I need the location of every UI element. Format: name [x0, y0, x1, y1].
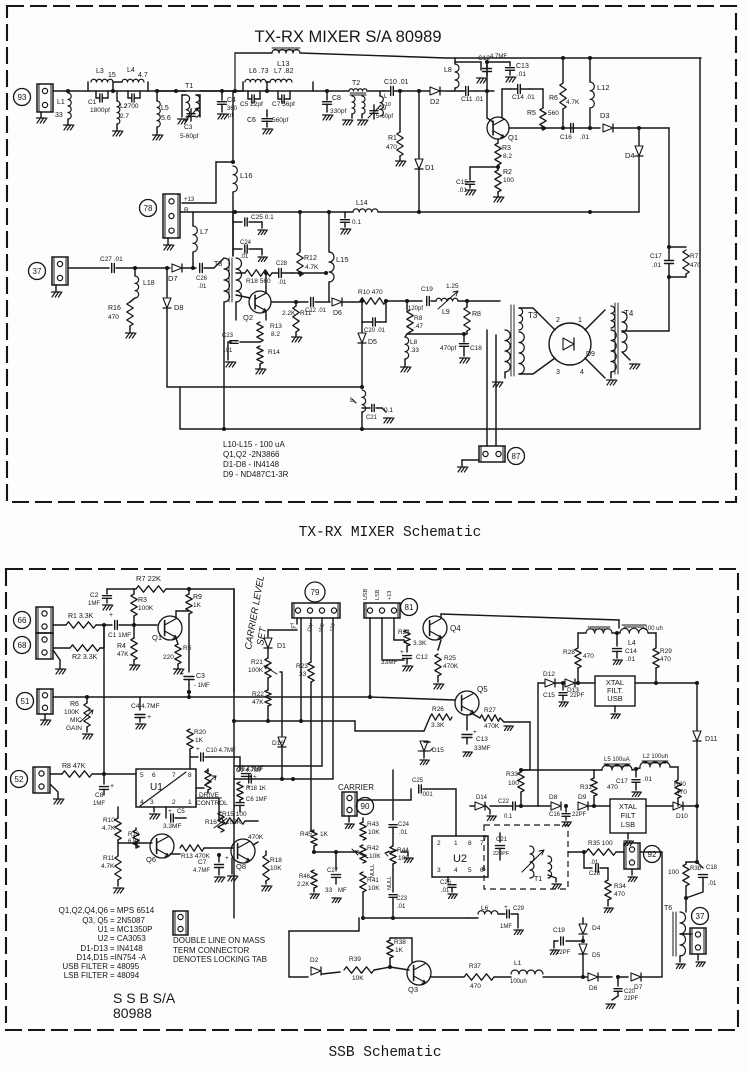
svg-text:470K: 470K: [443, 663, 459, 670]
resistor R41 10K: [360, 872, 366, 892]
wire Q4 collector to top: [440, 614, 442, 618]
svg-text:1K: 1K: [395, 947, 404, 954]
diode D9 lsb: [578, 802, 588, 810]
wire D2 to C11: [452, 90, 462, 92]
svg-text:C17: C17: [650, 253, 662, 260]
svg-text:R43: R43: [367, 821, 379, 828]
ground under R14: [256, 369, 260, 374]
capacitor C2: [131, 94, 133, 102]
svg-text:D9 - ND487C1-3R: D9 - ND487C1-3R: [223, 470, 289, 479]
svg-text:C20 .01: C20 .01: [364, 328, 386, 334]
svg-text:D16: D16: [272, 740, 284, 747]
ground under LSB box: [627, 833, 629, 839]
diode D10: [646, 805, 672, 807]
svg-text:R31: R31: [580, 784, 592, 791]
svg-text:79: 79: [311, 588, 320, 597]
svg-text:R8 47K: R8 47K: [62, 763, 86, 770]
svg-text:4.7: 4.7: [138, 72, 148, 79]
capacitor C4 4.7MF: [139, 697, 141, 710]
svg-text:D6: D6: [589, 985, 598, 992]
svg-text:4: 4: [140, 799, 144, 806]
resistor R22 47K: [267, 678, 269, 690]
svg-text:.01: .01: [198, 284, 207, 290]
svg-text:TX-RX MIXER Schematic: TX-RX MIXER Schematic: [299, 525, 482, 541]
svg-text:R4: R4: [117, 643, 126, 650]
svg-text:C24: C24: [240, 240, 252, 246]
resistor R13: [265, 312, 267, 320]
circled 81: [401, 599, 418, 616]
svg-text:C2: C2: [90, 592, 99, 599]
svg-text:R12: R12: [128, 832, 140, 838]
svg-text:SSB Schematic: SSB Schematic: [328, 1045, 441, 1061]
svg-text:10K: 10K: [368, 885, 380, 892]
diode D14: [470, 805, 474, 807]
diode D6 bottom: [588, 973, 598, 981]
svg-text:C22: C22: [498, 799, 510, 805]
circled 87: [508, 448, 525, 465]
svg-text:+: +: [225, 855, 229, 862]
+13 supply rail: [182, 211, 353, 213]
svg-text:D8: D8: [174, 303, 184, 312]
svg-text:Q3: Q3: [408, 985, 418, 994]
svg-text:Q4: Q4: [450, 624, 461, 633]
connector 52 circle: [11, 771, 28, 788]
ground under T6: [679, 956, 681, 962]
svg-text:D15: D15: [432, 747, 444, 754]
svg-text:= IN4148: = IN4148: [110, 944, 143, 953]
svg-text:C8: C8: [332, 95, 341, 102]
resistor R31 470: [593, 770, 595, 778]
svg-text:R45: R45: [300, 831, 312, 838]
resistor R8b: [466, 301, 468, 307]
svg-text:+: +: [196, 746, 200, 753]
connector 37 circle: [29, 263, 46, 280]
svg-text:Q2: Q2: [243, 313, 253, 322]
capacitor C19 22pf: [582, 936, 584, 942]
wire Q5 area to R33: [504, 721, 530, 723]
diode D1 ssb: [264, 638, 272, 648]
svg-text:C7: C7: [198, 859, 207, 866]
wire Q8 base: [204, 847, 233, 849]
svg-text:33MF: 33MF: [474, 745, 491, 752]
svg-text:C5 22pf: C5 22pf: [240, 101, 263, 108]
svg-text:.01: .01: [517, 71, 526, 78]
capacitor C17 lsb: [635, 769, 637, 777]
svg-text:C21: C21: [496, 837, 508, 843]
resistor R1: [399, 91, 401, 132]
svg-text:4.7K: 4.7K: [305, 264, 319, 271]
ground under T4: [622, 352, 630, 360]
ground under R2: [494, 197, 498, 202]
wire U1 outputs down: [196, 787, 204, 789]
connector J93 block: [37, 84, 53, 112]
inductor L4: [122, 79, 144, 82]
svg-text:L8: L8: [410, 339, 418, 346]
connector 66 circle: [14, 612, 31, 629]
svg-text:+: +: [180, 671, 184, 678]
svg-text:560: 560: [548, 110, 559, 117]
top schematic dashed border: [7, 6, 736, 502]
bottom rail 1: [167, 386, 362, 388]
svg-text:L8: L8: [444, 67, 452, 74]
svg-text:L10-L15 - 100 uA: L10-L15 - 100 uA: [223, 440, 285, 449]
capacitor C10: [390, 87, 392, 96]
emitter loop vertical with C17 R7: [668, 247, 670, 252]
svg-text:R: R: [184, 207, 189, 214]
svg-text:3.3K: 3.3K: [431, 722, 445, 729]
svg-text:L18: L18: [143, 280, 155, 287]
variable transformer T1: [530, 846, 534, 878]
svg-text:.01: .01: [652, 262, 661, 269]
svg-text:330pf: 330pf: [330, 108, 346, 115]
ring modulator diode symbol: [563, 338, 574, 350]
diode D7: [172, 264, 182, 272]
wire to junction: [386, 300, 422, 302]
svg-text:C21: C21: [366, 415, 378, 421]
capacitor C on rail 0.1: [344, 212, 346, 218]
ground under connector 93: [40, 112, 42, 118]
inductor L2 lsb: [642, 761, 668, 763]
inductor L7 bias: [192, 212, 194, 226]
svg-text:S S B S/A: S S B S/A: [113, 990, 176, 1006]
svg-text:R46: R46: [299, 874, 311, 880]
resistor R10: [360, 298, 386, 304]
svg-text:Q1,Q2 -2N3866: Q1,Q2 -2N3866: [223, 450, 280, 459]
capacitor C19: [426, 297, 428, 306]
inductor L15: [328, 212, 330, 252]
capacitor C4: [221, 91, 223, 100]
diode D8: [166, 268, 168, 297]
resistor R27 470K: [473, 714, 480, 718]
resistor R3b 100: [685, 862, 687, 864]
variable inductor L9: [436, 298, 458, 301]
svg-text:8.2: 8.2: [503, 153, 512, 160]
horizontal wire y766: [234, 765, 322, 767]
svg-text:0.1: 0.1: [352, 219, 361, 226]
inductor L4 usb: [622, 625, 646, 627]
svg-text:80988: 80988: [113, 1005, 152, 1021]
svg-text:D5: D5: [592, 952, 601, 959]
circled 90: [357, 798, 374, 815]
svg-text:4.7MF: 4.7MF: [193, 868, 210, 874]
wire R33 row to LSB coils: [521, 769, 594, 771]
wire to D2 junction: [402, 90, 429, 92]
svg-text:8: 8: [188, 772, 192, 779]
svg-text:R24: R24: [398, 629, 410, 636]
svg-text:R41: R41: [367, 877, 379, 884]
capacitor C12 electrolytic: [480, 62, 482, 70]
svg-text:USB: USB: [363, 588, 369, 600]
resistor R12b 6.8K: [135, 828, 137, 830]
svg-text:5-60pf: 5-60pf: [376, 114, 393, 120]
svg-text:D9: D9: [586, 351, 595, 358]
capacitor C20 22pf: [617, 977, 619, 986]
svg-text:1K: 1K: [320, 831, 329, 838]
svg-text:3.3K: 3.3K: [413, 640, 427, 647]
svg-text:0.1: 0.1: [504, 814, 513, 820]
svg-text:.01: .01: [441, 888, 450, 894]
svg-text:R14: R14: [268, 349, 280, 356]
variable capacitor C9: [370, 110, 378, 112]
svg-text:C27 .01: C27 .01: [100, 256, 123, 263]
svg-text:470: 470: [108, 314, 119, 321]
svg-text:.01: .01: [240, 254, 249, 260]
inductor L10: [379, 91, 381, 96]
svg-text:USB: USB: [607, 694, 622, 703]
inductor L6: [245, 79, 266, 82]
resistor R11b 4.7K: [117, 843, 119, 856]
connector J37 block: [52, 257, 68, 285]
circled 37 bottom: [692, 908, 709, 925]
capacitor C22 0.1: [512, 802, 514, 810]
ground under J90: [348, 816, 350, 822]
svg-text:4: 4: [454, 867, 458, 874]
svg-text:7: 7: [172, 772, 176, 779]
svg-text:+: +: [168, 808, 172, 815]
resistor R7 22K: [134, 588, 136, 590]
wire from connector 93: [53, 90, 88, 92]
svg-text:10K: 10K: [369, 853, 381, 860]
svg-text:=IN754 -A: =IN754 -A: [110, 953, 147, 962]
connector 51 circle: [17, 693, 34, 710]
svg-text:100: 100: [668, 869, 679, 876]
resistor R24 3.3K: [404, 640, 407, 644]
svg-text:4: 4: [580, 369, 584, 376]
svg-text:C25: C25: [412, 778, 424, 784]
svg-text:C7 56pf: C7 56pf: [272, 101, 295, 108]
svg-text:470: 470: [660, 656, 671, 663]
svg-text:C27: C27: [327, 868, 339, 874]
wire T8 secondary down: [223, 302, 225, 429]
svg-text:2.2K: 2.2K: [297, 882, 309, 888]
svg-text:37: 37: [696, 912, 705, 921]
svg-text:R34: R34: [614, 883, 626, 890]
svg-text:1MF: 1MF: [88, 601, 100, 607]
wire down to T4: [668, 277, 670, 331]
svg-text:C15: C15: [456, 179, 468, 186]
svg-text:Q3, Q5: Q3, Q5: [82, 916, 108, 925]
svg-text:3.3MF: 3.3MF: [163, 823, 181, 830]
svg-text:D7: D7: [168, 274, 178, 283]
svg-text:C28: C28: [589, 871, 601, 877]
ground under C24 stub: [258, 257, 261, 262]
svg-text:6: 6: [480, 867, 484, 874]
IC U1 box: [136, 769, 196, 807]
svg-text:33: 33: [299, 671, 307, 678]
svg-text:R21: R21: [251, 659, 263, 666]
ground under J68: [53, 650, 60, 668]
inductor L3 usb: [588, 627, 610, 629]
svg-text:.01: .01: [397, 904, 406, 910]
svg-text:C12: C12: [416, 654, 428, 661]
connector 87 block: [479, 446, 505, 462]
svg-text:D10: D10: [676, 813, 688, 820]
svg-text:U2: U2: [98, 934, 109, 943]
capacitor C7 4.7MF: [218, 855, 220, 862]
inductor L5: [155, 89, 159, 93]
USB row top wire: [618, 620, 620, 628]
wire x234 long vertical: [233, 589, 235, 918]
svg-text:R33: R33: [506, 771, 518, 778]
svg-text:5.6: 5.6: [161, 115, 171, 122]
svg-text:470: 470: [614, 891, 625, 898]
svg-text:470: 470: [607, 784, 618, 791]
wire junction to C1: [96, 624, 104, 626]
svg-text:.01: .01: [278, 280, 287, 286]
svg-text:CARRIER: CARRIER: [338, 783, 374, 792]
svg-text:R8: R8: [414, 315, 423, 322]
svg-text:5: 5: [468, 867, 472, 874]
svg-text:NULL: NULL: [387, 876, 393, 890]
capacitor C1 1MF: [114, 621, 116, 630]
ground under C12: [477, 78, 481, 83]
ground under R6: [83, 734, 87, 739]
svg-text:D12: D12: [543, 671, 555, 678]
resistor R10b 4.7K: [117, 807, 119, 818]
resistor R28 470: [577, 633, 579, 648]
connector 78 circle: [140, 200, 157, 217]
capacitor C8 1MF: [100, 786, 109, 788]
diode D4 vertical: [582, 918, 584, 924]
ground under C29: [517, 914, 519, 928]
svg-text:.33: .33: [410, 347, 419, 354]
svg-text:C25 0.1: C25 0.1: [251, 214, 274, 221]
capacitor C3 1MF: [188, 660, 190, 672]
svg-text:C10 4.7MF: C10 4.7MF: [206, 748, 236, 754]
svg-text:C4 4.7MF: C4 4.7MF: [131, 703, 160, 710]
svg-text:L6 .73: L6 .73: [249, 68, 269, 75]
connector J66 block: [36, 607, 53, 633]
ground under J51: [44, 714, 46, 719]
svg-text:470: 470: [386, 144, 397, 151]
capacitor C9 4.7MF: [216, 756, 240, 758]
svg-text:Q1,Q2,Q4,Q6: Q1,Q2,Q4,Q6: [59, 906, 109, 915]
capacitor C26 .01: [447, 877, 449, 882]
svg-text:C23: C23: [396, 896, 408, 902]
connector J78 block: [163, 194, 180, 238]
svg-text:C13: C13: [476, 736, 488, 743]
svg-text:L3: L3: [96, 68, 104, 75]
wire D7 up to 92 row: [661, 852, 663, 977]
svg-text:2.7: 2.7: [120, 113, 129, 120]
vertical link: [179, 387, 181, 429]
resistor R16 100K: [220, 797, 222, 799]
svg-text:C6: C6: [247, 117, 256, 124]
right bus vertical: [696, 806, 698, 862]
variable capacitor C3: [187, 113, 195, 115]
capacitor C13: [509, 62, 511, 66]
ground under L2: [116, 124, 118, 130]
collector wire Q1: [175, 611, 177, 618]
inductor L14: [353, 209, 378, 212]
capacitor C5 3.3MF: [165, 807, 167, 818]
svg-text:6: 6: [152, 772, 156, 779]
capacitor C15: [470, 166, 498, 168]
resistor R15 100: [196, 797, 219, 799]
capacitor C23 .01: [392, 870, 394, 892]
svg-text:C11 .01: C11 .01: [461, 96, 484, 103]
svg-text:R27: R27: [484, 707, 496, 714]
svg-text:R3: R3: [138, 597, 147, 604]
svg-text:1800pf: 1800pf: [90, 107, 110, 114]
svg-text:MIC: MIC: [70, 717, 82, 724]
inductor L2: [116, 91, 118, 101]
svg-text:87: 87: [512, 452, 521, 461]
svg-text:90: 90: [361, 802, 370, 811]
svg-text:22PF: 22PF: [570, 693, 585, 699]
resistor R9 1K: [188, 589, 190, 594]
svg-text:R2 3.3K: R2 3.3K: [72, 654, 98, 661]
svg-text:4.7MF: 4.7MF: [490, 54, 507, 60]
resistor R38 1K: [389, 938, 391, 940]
wire 78 to rail: [180, 211, 182, 213]
resistor R8 47K: [50, 773, 62, 775]
transistor Q8: [231, 839, 255, 863]
wire +13 pin jog to L16: [182, 202, 216, 204]
ground under T1 left: [178, 119, 182, 124]
ground under L5: [156, 127, 158, 134]
pot R6 100K MIC GAIN: [86, 697, 88, 703]
svg-text:470: 470: [676, 789, 687, 796]
svg-text:470K: 470K: [248, 834, 264, 841]
svg-text:.01: .01: [590, 860, 599, 866]
svg-text:MF: MF: [338, 888, 347, 894]
svg-text:C17: C17: [616, 778, 628, 785]
resistor R6: [562, 58, 564, 83]
svg-text:D9: D9: [578, 794, 587, 801]
diode D8 lsb: [551, 802, 561, 810]
svg-text:=100 uh: =100 uh: [641, 626, 663, 632]
svg-text:+13: +13: [387, 591, 393, 600]
svg-text:470pf: 470pf: [440, 345, 456, 352]
T3 bottom ground: [504, 372, 506, 378]
svg-text:C12 .01: C12 .01: [305, 308, 327, 314]
svg-text:R8: R8: [472, 311, 481, 318]
wire T2 to C10: [367, 90, 384, 92]
svg-text:R7: R7: [690, 253, 699, 260]
transistor Q6: [150, 834, 174, 858]
svg-text:1K: 1K: [193, 602, 202, 609]
svg-text:+: +: [109, 612, 113, 619]
svg-text:R28: R28: [563, 649, 575, 656]
ground under rail cap: [341, 229, 345, 234]
svg-text:D6: D6: [333, 310, 342, 317]
ground under R11b: [114, 888, 118, 893]
svg-text:120pf: 120pf: [408, 306, 423, 312]
ground under C25 stub: [258, 230, 261, 235]
svg-text:.01: .01: [399, 830, 408, 836]
svg-text:C16: C16: [560, 134, 572, 141]
transistor Q1 ssb: [158, 616, 182, 640]
svg-text:+: +: [253, 774, 257, 781]
svg-text:R12: R12: [304, 255, 317, 262]
XTAL FILT LSB box: [610, 799, 646, 833]
svg-text:R13: R13: [270, 323, 282, 330]
svg-text:D1: D1: [277, 643, 286, 650]
wire T pin to D1: [296, 618, 298, 624]
svg-text:D1-D13: D1-D13: [80, 944, 108, 953]
svg-text:C23: C23: [222, 333, 234, 339]
diode D16: [278, 737, 286, 747]
svg-text:= 48095: = 48095: [110, 962, 140, 971]
svg-text:R23: R23: [296, 663, 308, 670]
wire x104 vertical: [103, 628, 105, 784]
svg-text:D8: D8: [549, 794, 558, 801]
resistor R17 470K: [253, 842, 258, 845]
svg-text:D14: D14: [476, 795, 488, 801]
svg-text:R7 22K: R7 22K: [136, 574, 161, 583]
svg-text:= 48094: = 48094: [110, 971, 140, 980]
